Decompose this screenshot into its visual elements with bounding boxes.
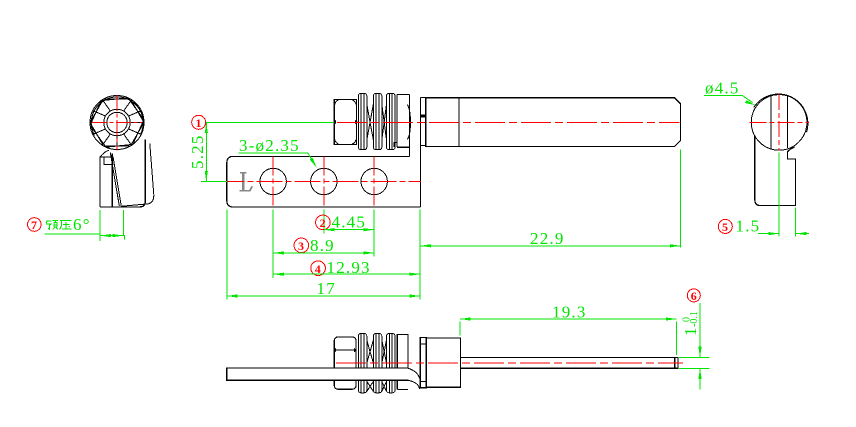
spring waist 2: [382, 104, 387, 140]
hole 2: [311, 168, 337, 194]
letter L marking: [240, 173, 253, 191]
washer band: [420, 338, 426, 388]
cup section: [397, 94, 410, 147]
dim 4: 12.93: [311, 261, 326, 276]
svg-text:4: 4: [315, 262, 321, 276]
hole 3: [361, 168, 387, 194]
hex nut body: [334, 337, 356, 389]
leader to circle: [743, 96, 753, 103]
hole row extension line: [201, 180, 227, 182]
svg-text:7: 7: [31, 218, 37, 232]
bottom centerline: [336, 362, 683, 364]
washer tick: [421, 115, 426, 118]
arm plate right edge: [111, 154, 113, 208]
cup section: [397, 334, 408, 389]
rotated plate slant 1: [110, 153, 119, 206]
char ya (press): [60, 221, 72, 230]
bracket plate strip: [227, 368, 409, 380]
arm plate left edge: [99, 157, 101, 207]
hole 1 vertical centerline: [272, 156, 274, 206]
svg-text:ø4.5: ø4.5: [705, 79, 740, 98]
spring disc 1: [358, 93, 366, 149]
slot right line: [787, 96, 789, 148]
rod flat: [460, 357, 678, 368]
cup inner arc: [407, 105, 410, 140]
cylinder collar line: [458, 98, 460, 147]
svg-text:8.9: 8.9: [310, 236, 335, 255]
tolerance text 1 0/-0.1: [681, 311, 700, 336]
svg-text:6: 6: [691, 289, 697, 303]
rotated wide arm outline: [121, 144, 154, 207]
char yu (pre): [46, 221, 51, 229]
hex chamfer spokes: [90, 100, 144, 146]
slot left line: [770, 96, 772, 149]
label 预压6°: [46, 221, 71, 230]
leader to hole: [308, 153, 314, 162]
circled 6: [687, 289, 700, 302]
hole 2 vertical centerline: [323, 156, 325, 206]
hex mid darts: [333, 120, 336, 124]
crosshair horizontal: [750, 121, 810, 123]
vertical plate left edge: [409, 94, 411, 156]
label underline / dim line: [45, 234, 125, 239]
thickness dim line upper: [699, 303, 701, 357]
svg-text:3: 3: [298, 239, 304, 253]
hole 1: [260, 168, 286, 194]
svg-text:17: 17: [317, 279, 336, 298]
thickness dim line lower: [699, 368, 701, 389]
dim 3: 8.9: [294, 238, 309, 253]
6deg arrows: [100, 234, 111, 237]
hex corner arcs: [335, 100, 356, 144]
hex nut outline: [90, 99, 144, 146]
crosshair vertical: [778, 94, 780, 151]
spring disc 2: [373, 93, 381, 149]
svg-text:5.25: 5.25: [188, 134, 207, 169]
dim 2: 4.45: [316, 215, 331, 230]
arm plate top edge: [100, 156, 112, 158]
washer band: [421, 97, 426, 145]
svg-text:4.45: 4.45: [332, 213, 367, 232]
inner circle bore: [107, 112, 127, 132]
spring waist 2: [382, 340, 387, 392]
neck curve to head: [100, 150, 109, 157]
circled 7: [28, 218, 42, 232]
head centerline horizontal: [92, 122, 142, 124]
wide arm outline: [114, 140, 146, 208]
cup notch: [394, 142, 397, 147]
circled 5: [718, 219, 732, 233]
head outer circle: [90, 96, 144, 150]
dim 19.3: [459, 322, 461, 336]
dim 22.9: [680, 150, 682, 248]
1.5 dim line: [758, 233, 779, 235]
6deg dim extension lines: [99, 210, 101, 241]
datum line 1: [206, 121, 334, 123]
rod flat end line: [674, 357, 676, 368]
hole 3 vertical centerline: [373, 156, 375, 206]
vertical plate right edge: [420, 97, 422, 207]
hole row centerline: [219, 181, 422, 183]
svg-text:2: 2: [320, 216, 326, 230]
body outline: [755, 136, 796, 206]
spring waist 1: [367, 340, 374, 392]
bend fillet inner: [408, 368, 421, 381]
spring disc 2: [373, 334, 381, 393]
5.25 dim line: [205, 122, 207, 181]
extension lines: [778, 153, 780, 237]
spring disc 3: [387, 334, 396, 393]
main axis centerline: [337, 122, 680, 124]
svg-text:5: 5: [722, 220, 728, 234]
thickness extension lines: [679, 356, 710, 358]
arm top notch: [104, 157, 113, 164]
cylinder outline: [426, 98, 681, 147]
arm plate bottom edge: [100, 206, 114, 208]
hex nut outline rotated 6deg: [88, 96, 147, 148]
spring disc 3: [387, 93, 396, 149]
svg-text:1: 1: [196, 116, 202, 130]
head centerline vertical: [116, 95, 118, 151]
hex flat darts: [333, 348, 336, 352]
svg-text:-0.1: -0.1: [689, 311, 700, 327]
rotated plate slant 2: [113, 157, 121, 207]
bracket plate outline: [227, 156, 421, 207]
circled 1: [192, 115, 206, 129]
head outer circle: [751, 95, 807, 151]
washer corner notches: [420, 338, 426, 344]
bend fillet outer: [409, 380, 420, 389]
hex flat line: [334, 349, 356, 351]
svg-text:3-ø2.35: 3-ø2.35: [239, 136, 300, 155]
svg-text:6°: 6°: [73, 215, 91, 234]
inner circle outer: [104, 109, 130, 135]
head outer ring arc: [91, 97, 143, 136]
collar cylinder: [426, 338, 460, 387]
spring waist 1: [367, 104, 374, 140]
extension lines below bracket: [226, 210, 228, 300]
svg-text:1.5: 1.5: [736, 217, 761, 236]
hex nut body: [334, 99, 356, 144]
head rolled edge arc: [754, 94, 808, 132]
spring disc 1: [358, 334, 366, 393]
